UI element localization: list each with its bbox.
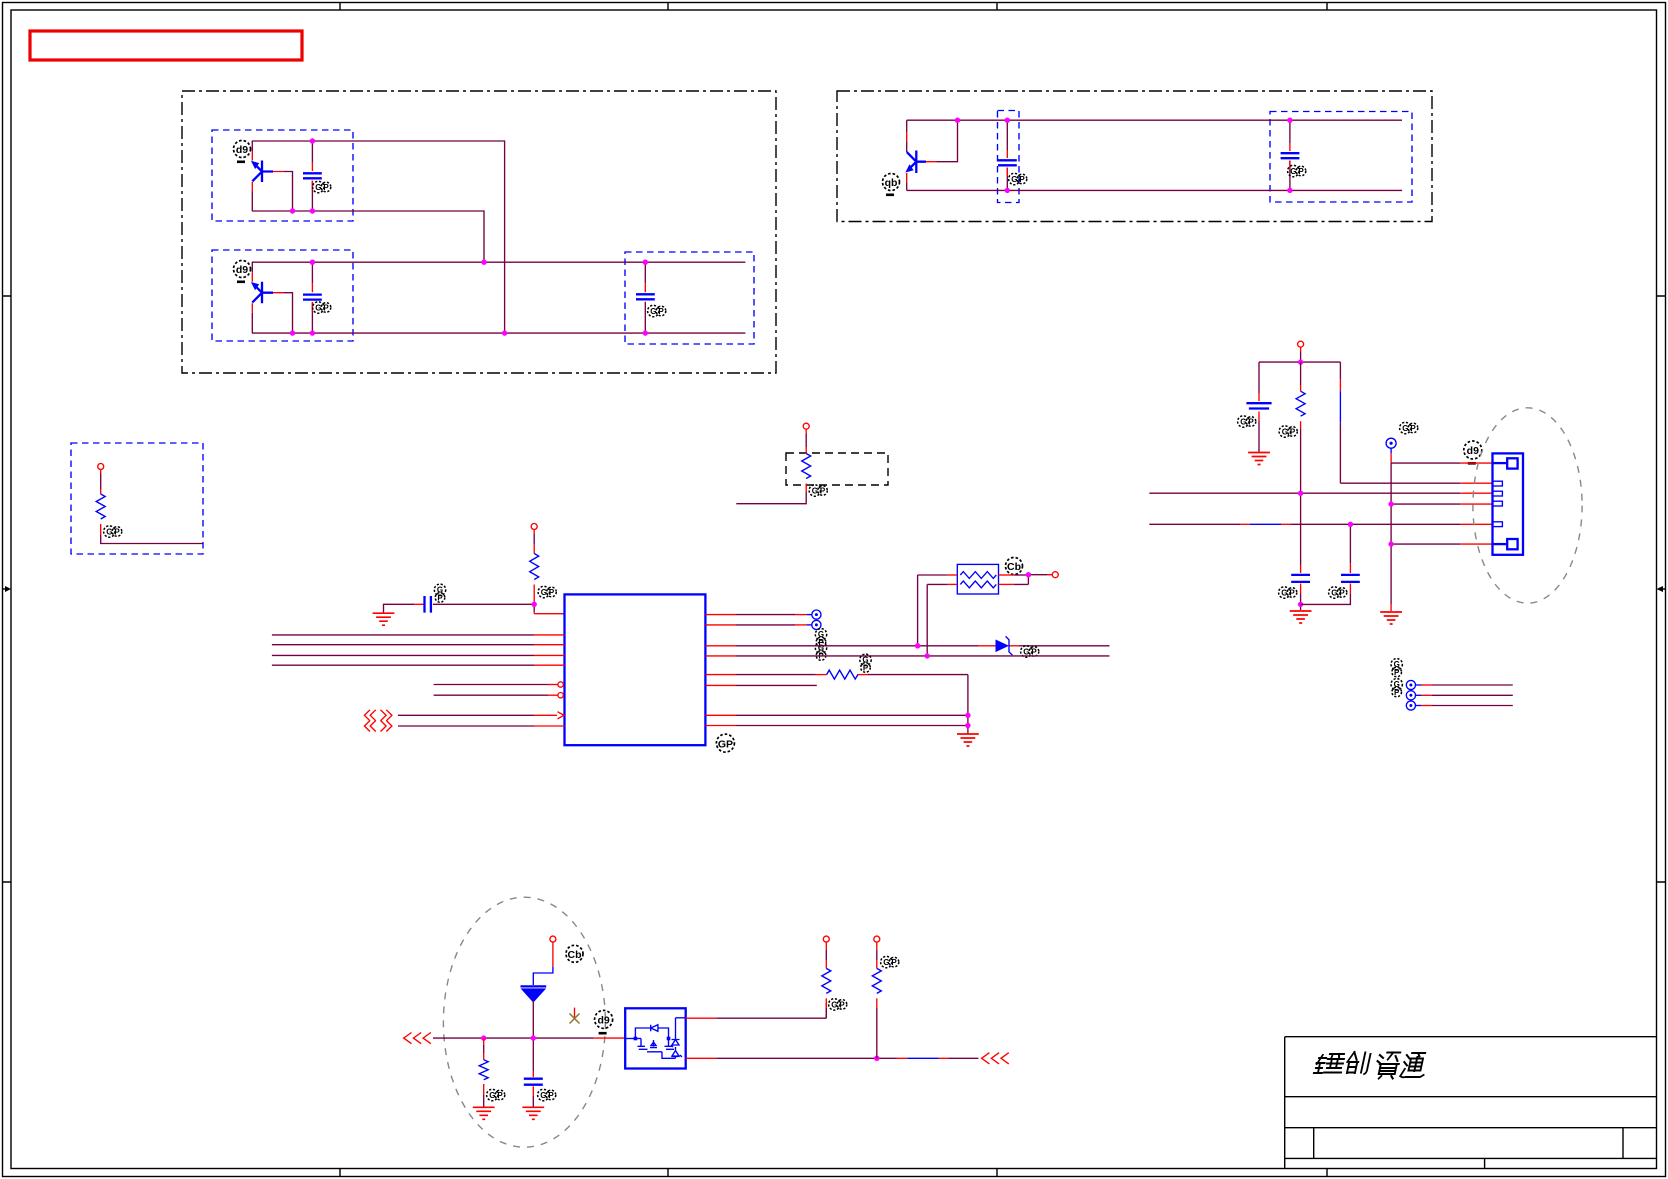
resistor R2: [736, 429, 810, 504]
sub-box C5 (blue dashed): [1270, 112, 1412, 203]
wire pin circle B: [434, 693, 564, 698]
wire net rail2 right of U1: [705, 655, 1109, 657]
wire RP1 upper right to terminal: [999, 574, 1053, 576]
junction dot R8: [874, 1056, 879, 1061]
wire Q4 lower output: [686, 1057, 979, 1059]
offpage chevrons gate bus left: [404, 1033, 431, 1044]
ground G2: [957, 734, 979, 746]
offpage chevrons wire2: [364, 721, 392, 732]
junction dots on T3 riser: [1388, 501, 1393, 546]
transistor Q1: [251, 141, 293, 211]
label C4: [1009, 173, 1027, 184]
border zone ticks right: [1657, 296, 1666, 882]
MOSFET gate junction dots: [634, 1037, 671, 1041]
label C10: [538, 1089, 556, 1100]
wire resistor R5 down to cap C8: [1300, 493, 1302, 565]
resistor R5: [1296, 362, 1305, 493]
wire pin circle A: [434, 682, 564, 687]
sub-box Q2 (blue dashed): [212, 250, 353, 341]
junction dot C9 top: [1348, 522, 1353, 527]
connector CN1 pin tabs: [1493, 481, 1503, 526]
junction dots box2: [290, 260, 508, 336]
wire net R4 (U1 to ground riser): [705, 675, 968, 734]
junction dots RP1: [915, 572, 1031, 659]
border mid arrow right: [1657, 586, 1666, 592]
sub-box Q1 (blue dashed): [212, 130, 353, 221]
wire branch to CN pin2: [1340, 362, 1492, 483]
label R4 (vertical): [860, 654, 871, 672]
label RP1: [1006, 558, 1023, 575]
junction dot R5 on pin3 wire: [1298, 491, 1303, 496]
diode D1 (zener): [996, 636, 1013, 655]
labels T1 T2 (vertical): [815, 629, 826, 647]
company name glyphs (Wistron): [1313, 1052, 1429, 1079]
label U1: [716, 734, 734, 752]
label CN1: [1464, 441, 1482, 465]
wire right section top node: [1259, 347, 1340, 362]
group box A (top-left dash-dot): [182, 91, 776, 373]
wire net U1 pin stub: [705, 684, 816, 686]
wire R3 junction into U1 pin1: [534, 604, 564, 613]
terminal circle R3 top: [531, 524, 537, 530]
label C7: [1238, 416, 1256, 427]
capacitor C6 (horizontal): [384, 596, 535, 613]
sub-box R1 (blue dashed, mid-left): [71, 443, 203, 554]
wire bus4 into U1: [272, 664, 565, 666]
label C8: [1279, 587, 1297, 598]
wire T3 riser to CN pin1 and ground: [1390, 448, 1392, 611]
border mid arrow left: [3, 586, 12, 592]
wire RP1 upper left: [918, 575, 958, 646]
ground G5: [1380, 612, 1402, 624]
capacitor C1: [303, 141, 322, 211]
title block: [1285, 1037, 1657, 1169]
ground G3: [1248, 453, 1270, 465]
connector highlight ellipse: [1473, 408, 1582, 603]
svg-text:d9: d9: [1467, 445, 1479, 457]
wire net5 (top rail group B): [907, 119, 1402, 121]
capacitor C7: [1246, 362, 1271, 452]
wires from T4 T5 T6: [1416, 685, 1513, 706]
wire net4 (bottom rail): [252, 332, 745, 334]
wire CN pin1: [1391, 462, 1492, 464]
sub-box C4 (blue dashed): [998, 111, 1020, 203]
border zone ticks bottom: [340, 1169, 1327, 1177]
wire net2 (Q1 bottom rail to Q2 top rail riser): [252, 211, 484, 262]
label R8: [881, 956, 899, 967]
capacitor C9: [1301, 575, 1360, 605]
transistor Q3: [905, 120, 936, 190]
label R2: [809, 485, 827, 496]
offpage chevrons lower output right: [982, 1053, 1009, 1064]
label T3: [1400, 422, 1418, 433]
wire bus1 into U1: [272, 634, 565, 636]
label Q2: [234, 261, 251, 284]
junction dots group B: [955, 118, 1293, 194]
resistor R3: [530, 530, 539, 605]
capacitor C3: [636, 262, 655, 333]
label C6: [434, 584, 445, 602]
border zone ticks left: [3, 296, 12, 882]
wire net1 top (Q1 emitter rail): [252, 141, 505, 333]
ground G4: [1290, 611, 1312, 623]
terminal circle RP1: [1052, 572, 1058, 578]
border zone ticks top: [340, 3, 1327, 11]
wire net3 (Q2 emitter rail): [252, 261, 746, 263]
wire Q4 upper output to R7: [686, 1002, 827, 1018]
label R6: [487, 1089, 505, 1100]
junction dots box3: [643, 260, 648, 336]
wire bus2 into U1: [272, 644, 565, 646]
label C2: [313, 302, 331, 313]
wire RP1 lower right riser: [999, 575, 1029, 585]
svg-text:Cb: Cb: [568, 949, 582, 961]
terminal T3 (circled dot): [1386, 438, 1396, 448]
svg-text:GP: GP: [718, 739, 733, 751]
junction dot C8 bottom: [1298, 602, 1303, 607]
wire U1 right pin2 to terminal T2: [705, 624, 812, 626]
wire gate bus: [433, 1037, 625, 1039]
resistor R8: [872, 942, 881, 1058]
wire CN pin5 (long): [1149, 523, 1492, 525]
label C5: [1288, 165, 1306, 176]
diode D2: [521, 986, 547, 1002]
label R7: [829, 999, 847, 1010]
label R5: [1279, 426, 1297, 437]
labels T4 T5 T6 (vertical stack): [1391, 659, 1402, 697]
junction dots box1: [290, 138, 315, 213]
ground G7: [473, 1107, 495, 1119]
ground G6: [522, 1107, 544, 1119]
connector CN1 body: [1493, 453, 1524, 554]
resistor R7: [822, 942, 831, 1018]
junction dots gate bus: [481, 1035, 536, 1040]
wire chevron2 into U1: [398, 725, 565, 727]
sub-box C3 (blue dashed): [625, 252, 754, 344]
wire chevron1 into U1: [398, 712, 564, 719]
wire C9 riser: [1349, 524, 1351, 573]
wire CN pin6: [1391, 543, 1492, 545]
terminal T1 (circled dot): [812, 610, 821, 619]
terminal T2 (circled dot): [812, 620, 821, 629]
sub-box R2 (black dashed): [786, 453, 888, 485]
wire net D1 (U1 to diode rail): [705, 645, 1109, 647]
ground G1: [373, 613, 395, 625]
label C9: [1329, 587, 1347, 598]
junction dots ground riser: [965, 713, 970, 729]
terminal circle right section top: [1298, 341, 1304, 347]
label D1: [1021, 646, 1039, 657]
svg-text:d9: d9: [236, 144, 248, 156]
label Q4: [595, 1010, 613, 1034]
wire RP1 lower left: [927, 584, 957, 656]
wire CN pin4: [1391, 503, 1492, 505]
capacitor C5: [1281, 120, 1300, 190]
red highlight box: [30, 31, 302, 60]
no-connect mark: [570, 1008, 580, 1024]
capacitor C8: [1291, 565, 1310, 610]
terminal circle R7: [823, 936, 829, 942]
offpage chevrons wire1: [364, 710, 392, 721]
wire U1 bottom right pin1: [705, 714, 968, 716]
label D2: [566, 945, 583, 962]
resistor R6: [479, 1038, 488, 1106]
label R3: [538, 586, 556, 597]
wire U1 right pin1 to terminal T1: [705, 614, 812, 616]
resistor R1: [96, 470, 202, 544]
capacitor C4: [998, 120, 1017, 190]
svg-text:qb: qb: [885, 177, 898, 189]
label Q1: [234, 141, 251, 164]
transistor Q2: [251, 262, 293, 333]
terminal circle R1 top: [98, 464, 104, 470]
terminals T4 T5 T6 (circled dots): [1406, 680, 1415, 710]
group box B (top-right dash-dot): [837, 91, 1432, 222]
terminal circle R2 top: [803, 423, 809, 429]
terminal circle D2 top: [550, 936, 556, 942]
svg-text:Cb: Cb: [1007, 561, 1021, 573]
wire bus3 into U1: [272, 654, 565, 656]
junction dot R3/C6: [532, 602, 537, 607]
resistor R4 (horizontal): [827, 670, 858, 679]
label C1: [313, 181, 331, 192]
wire Q3 base riser: [936, 120, 957, 162]
terminal circle R8: [874, 936, 880, 942]
wire U1 bottom right pin2: [705, 725, 968, 727]
wire D2 to bus and C10: [532, 1000, 534, 1071]
svg-text:d9: d9: [236, 264, 248, 276]
wire D2 top (selected blue jog): [533, 942, 553, 985]
capacitor C10: [524, 1071, 543, 1107]
label C3: [648, 305, 666, 316]
highlight ellipse bottom-left: [443, 897, 605, 1147]
IC U1: [565, 594, 706, 745]
MOSFET block Q4: [625, 1008, 686, 1068]
wire net6 (bottom rail group B): [907, 189, 1402, 191]
resistor pack RP1 elements: [960, 572, 996, 588]
resistor pack RP1 box: [957, 564, 998, 594]
junction dot top node: [1298, 359, 1303, 364]
MOSFET Q4 internals: [625, 1018, 686, 1059]
capacitor C2: [303, 262, 322, 333]
label R1: [104, 526, 122, 537]
label Q3: [883, 174, 900, 197]
wire CN pin3 (long): [1149, 492, 1492, 494]
svg-text:d9: d9: [597, 1014, 609, 1026]
